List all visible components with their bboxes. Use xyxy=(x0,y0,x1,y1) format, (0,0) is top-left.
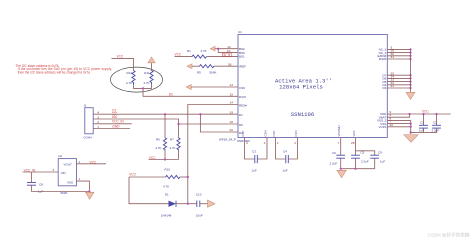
svg-text:VIN: VIN xyxy=(61,171,66,175)
svg-text:3: 3 xyxy=(264,141,266,145)
svg-text:GND: GND xyxy=(112,124,120,128)
RES# wire down to reset circuit xyxy=(188,101,247,204)
bus vertical xyxy=(410,49,412,91)
reset circuit: VCC feed xyxy=(129,173,169,204)
D0 net wire xyxy=(93,119,243,127)
svg-text:9: 9 xyxy=(228,53,230,57)
U2 regulator xyxy=(58,154,76,195)
svg-text:4: 4 xyxy=(97,111,99,115)
svg-text:CS#: CS# xyxy=(239,86,245,90)
svg-text:SSD1306: SSD1306 xyxy=(237,139,250,143)
svg-text:VOUT: VOUT xyxy=(64,163,73,167)
svg-text:1N4148: 1N4148 xyxy=(161,214,172,218)
svg-text:R7: R7 xyxy=(170,138,174,142)
svg-text:128x64 Pixels: 128x64 Pixels xyxy=(279,84,323,91)
note text xyxy=(16,64,113,74)
connector stub VCC_IN xyxy=(93,123,132,125)
svg-text:VCC_IN: VCC_IN xyxy=(24,168,36,172)
wire xyxy=(112,58,134,70)
svg-text:10: 10 xyxy=(227,49,231,53)
svg-text:R/W#: R/W# xyxy=(379,57,387,61)
svg-text:2.2uF: 2.2uF xyxy=(330,161,338,165)
ground arrow VCOMH xyxy=(337,170,346,178)
gnd rail bottom caps xyxy=(340,168,375,170)
svg-text:VSS: VSS xyxy=(67,180,73,184)
ground arrow bus xyxy=(406,92,415,99)
svg-text:C2: C2 xyxy=(433,120,437,124)
resistor R7 xyxy=(169,124,180,160)
svg-text:C4: C4 xyxy=(283,149,287,153)
svg-text:2.2uF: 2.2uF xyxy=(361,160,369,164)
svg-text:IREF: IREF xyxy=(239,65,246,69)
capacitor C9 branch xyxy=(356,151,386,169)
svg-text:C5: C5 xyxy=(361,151,365,155)
svg-text:then the I2C slave address wil: then the I2C slave address will be chang… xyxy=(18,70,90,74)
svg-text:CON4: CON4 xyxy=(83,136,92,140)
wire resistor bottoms to DC xyxy=(134,85,239,97)
ground arrow U2 xyxy=(86,192,95,199)
resistor R12 xyxy=(126,71,135,85)
svg-text:VCOMH: VCOMH xyxy=(337,125,341,136)
svg-text:C6: C6 xyxy=(332,151,336,155)
U2 VSS wire xyxy=(77,177,90,191)
VSS pins xyxy=(377,116,412,134)
svg-text:21: 21 xyxy=(391,84,395,88)
right D pins xyxy=(382,71,411,90)
resistor R10 xyxy=(163,168,189,189)
svg-text:19: 19 xyxy=(230,110,234,114)
diode D1 xyxy=(161,193,189,218)
svg-text:C3: C3 xyxy=(252,149,256,153)
D1 net wire xyxy=(93,110,243,117)
svg-text:C1: C1 xyxy=(420,120,424,124)
power VCC arrow xyxy=(148,57,155,71)
svg-text:4.7K: 4.7K xyxy=(126,81,132,85)
svg-text:18: 18 xyxy=(230,120,234,124)
svg-text:28: 28 xyxy=(228,62,232,66)
svg-text:14: 14 xyxy=(230,101,234,105)
IC U1 xyxy=(219,30,387,143)
svg-text:31: 31 xyxy=(391,55,395,59)
capacitor C6 VCOMH xyxy=(330,142,346,169)
svg-text:VCC: VCC xyxy=(175,52,182,56)
resistor R1 xyxy=(175,49,239,58)
svg-text:VCC: VCC xyxy=(422,109,429,113)
svg-text:U2: U2 xyxy=(58,154,62,158)
resistor R11 xyxy=(143,71,153,85)
resistor R5 IREF xyxy=(187,62,246,74)
svg-text:1: 1 xyxy=(79,177,81,181)
VBAT pin xyxy=(379,113,410,119)
ground arrow VSS xyxy=(404,135,418,143)
capacitor C1 xyxy=(419,114,428,133)
capacitor C8 xyxy=(27,172,43,193)
ground arrow right xyxy=(208,200,216,207)
svg-text:R1: R1 xyxy=(187,49,191,53)
svg-text:1uF: 1uF xyxy=(252,169,257,173)
svg-text:C8: C8 xyxy=(39,182,43,186)
VDD VCC rail right xyxy=(380,109,451,116)
svg-text:4.7K: 4.7K xyxy=(143,81,149,85)
svg-text:C1P: C1P xyxy=(272,131,276,137)
svg-text:CSDN @好学的花糖: CSDN @好学的花糖 xyxy=(428,232,470,239)
svg-text:1: 1 xyxy=(277,141,279,145)
svg-text:4.7K: 4.7K xyxy=(169,146,175,150)
U2 VIN wire xyxy=(23,168,59,173)
svg-text:VLSS: VLSS xyxy=(379,125,387,129)
svg-text:13: 13 xyxy=(230,83,234,87)
resistor R6 xyxy=(155,114,166,159)
svg-text:J1: J1 xyxy=(83,104,87,108)
svg-text:R6: R6 xyxy=(156,138,160,142)
svg-text:BS1: BS1 xyxy=(239,54,245,58)
svg-text:VCC: VCC xyxy=(352,129,356,136)
capacitor C4 xyxy=(276,142,298,173)
VCC rail under R6 R7 xyxy=(149,156,179,161)
svg-text:VCC: VCC xyxy=(129,173,136,177)
net labels connector xyxy=(112,109,124,129)
svg-text:26: 26 xyxy=(390,123,394,127)
bottom pin labels rotated xyxy=(241,125,356,136)
bottom pin tiny numbers xyxy=(246,141,355,145)
red highlight box pin 9 xyxy=(222,53,231,57)
svg-text:U1: U1 xyxy=(238,30,242,34)
CS# wire + gnd arrow xyxy=(186,83,245,90)
BS2 pin wire + gnd arrow xyxy=(210,46,238,52)
svg-text:D/C#: D/C# xyxy=(239,95,246,99)
svg-text:3: 3 xyxy=(97,115,99,119)
svg-text:2: 2 xyxy=(79,160,81,164)
svg-text:3: 3 xyxy=(53,168,55,172)
svg-text:2: 2 xyxy=(294,141,296,145)
U2 VOUT wire xyxy=(77,160,107,165)
svg-text:4.7K: 4.7K xyxy=(201,49,207,53)
capacitor C5 VCC xyxy=(351,142,369,169)
VCC label ellipse xyxy=(112,55,134,71)
right top pins NC and bus xyxy=(377,46,411,62)
svg-text:DC: DC xyxy=(169,92,174,96)
svg-text:C9: C9 xyxy=(378,151,382,155)
svg-text:RES#: RES# xyxy=(239,104,247,108)
svg-text:D3: D3 xyxy=(382,86,386,90)
D2 tie to D1 xyxy=(200,114,243,135)
svg-text:C1N: C1N xyxy=(294,130,298,136)
svg-text:WF28_S4_P: WF28_S4_P xyxy=(219,138,236,142)
ellipse xyxy=(111,67,163,92)
svg-text:VCC_IN: VCC_IN xyxy=(112,119,124,123)
connector stub GND xyxy=(93,128,130,130)
capacitor C3 xyxy=(245,142,268,173)
svg-text:C2N: C2N xyxy=(264,130,268,136)
svg-text:R10: R10 xyxy=(165,168,171,172)
svg-text:7: 7 xyxy=(337,141,339,145)
capacitor C2 xyxy=(432,114,441,133)
svg-text:28: 28 xyxy=(351,141,355,145)
svg-text:1uF: 1uF xyxy=(380,160,385,164)
bottom pins stubs xyxy=(245,138,356,142)
connector J1 xyxy=(83,104,99,140)
svg-text:15: 15 xyxy=(230,92,234,96)
svg-text:D1: D1 xyxy=(112,109,116,113)
cap bottom rail xyxy=(411,131,437,133)
svg-text:D1: D1 xyxy=(239,113,243,117)
svg-text:1uF: 1uF xyxy=(283,169,288,173)
svg-text:R12: R12 xyxy=(126,71,132,75)
svg-text:4.7K: 4.7K xyxy=(155,146,161,150)
svg-text:10uF: 10uF xyxy=(196,214,203,218)
capacitor C10 xyxy=(188,193,208,218)
gnd rail U2 xyxy=(31,190,90,192)
svg-text:4.7K: 4.7K xyxy=(163,185,169,189)
svg-text:20: 20 xyxy=(230,128,234,132)
svg-text:C10: C10 xyxy=(196,193,202,197)
svg-text:SSN1106: SSN1106 xyxy=(291,111,315,118)
svg-text:D0: D0 xyxy=(112,114,116,118)
svg-text:R5: R5 xyxy=(197,70,201,74)
svg-text:4: 4 xyxy=(246,141,248,145)
svg-text:560K: 560K xyxy=(210,70,217,74)
svg-text:VCC: VCC xyxy=(90,160,97,164)
svg-text:R11: R11 xyxy=(144,71,150,75)
svg-text:D1: D1 xyxy=(165,193,169,197)
svg-text:D0: D0 xyxy=(239,123,243,127)
svg-text:C2P: C2P xyxy=(241,131,245,137)
